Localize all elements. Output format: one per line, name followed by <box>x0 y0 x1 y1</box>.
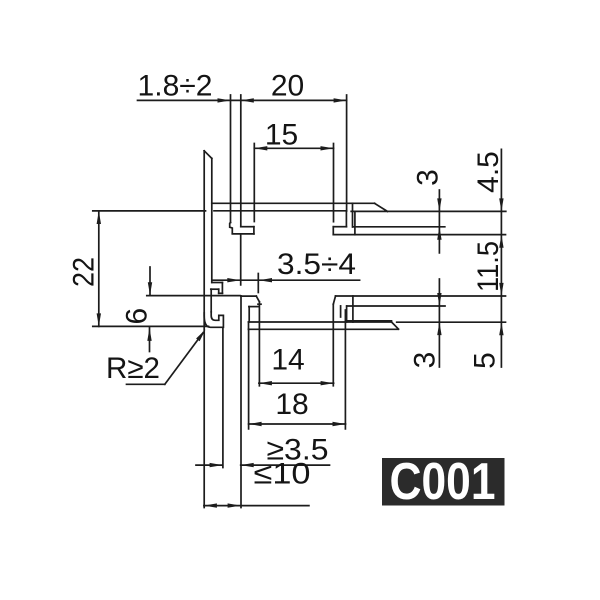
svg-text:5: 5 <box>469 352 502 369</box>
svg-text:4.5: 4.5 <box>472 151 505 193</box>
svg-text:3.5÷4: 3.5÷4 <box>277 248 356 281</box>
svg-text:14: 14 <box>271 344 304 377</box>
svg-text:≤10: ≤10 <box>254 458 311 491</box>
svg-text:15: 15 <box>265 119 298 152</box>
svg-text:3: 3 <box>409 352 442 369</box>
svg-text:11.5: 11.5 <box>472 241 505 292</box>
svg-text:1.8÷2: 1.8÷2 <box>138 70 213 103</box>
svg-text:3: 3 <box>412 169 445 186</box>
svg-text:22: 22 <box>68 257 101 287</box>
svg-text:C001: C001 <box>390 453 496 511</box>
svg-text:20: 20 <box>271 70 304 103</box>
svg-text:R≥2: R≥2 <box>106 352 160 385</box>
svg-text:6: 6 <box>120 308 153 325</box>
svg-text:18: 18 <box>275 388 308 421</box>
